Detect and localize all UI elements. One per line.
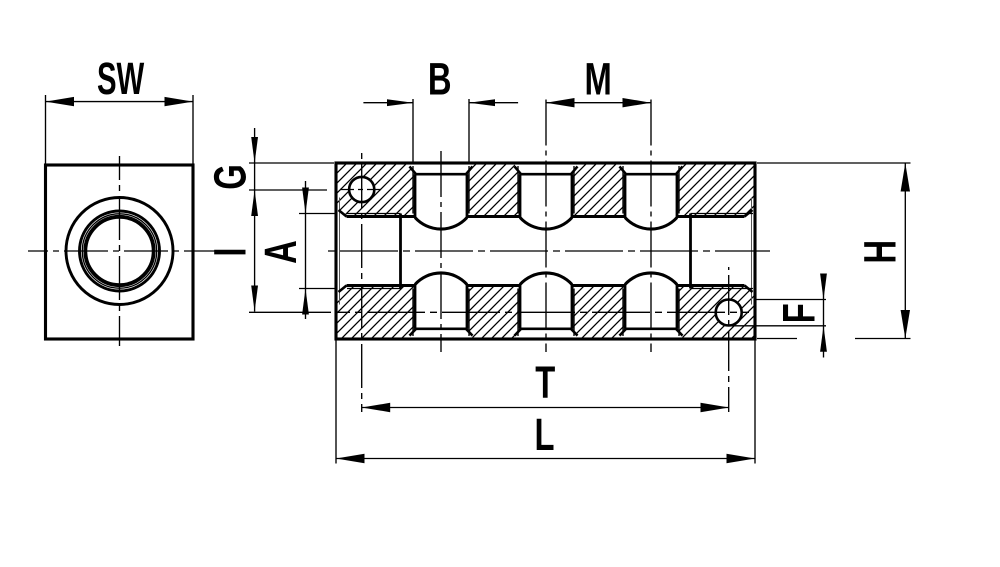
svg-text:SW: SW — [97, 53, 145, 104]
end view chamfer circle — [80, 211, 160, 291]
end view horizontal centerline — [28, 250, 216, 252]
left bore thread major lines — [347, 214, 401, 289]
dimension B line with outside arrows — [363, 99, 518, 106]
bottom port 1 — [410, 273, 473, 336]
svg-text:T: T — [535, 358, 555, 408]
svg-text:M: M — [584, 54, 611, 104]
port 2 centerline — [545, 100, 547, 353]
channel bottom edge — [347, 284, 745, 287]
svg-text:L: L — [534, 410, 554, 460]
hatched area bottom-left island — [337, 287, 415, 338]
port 1 centerline — [440, 147, 442, 352]
svg-text:G: G — [205, 164, 255, 189]
top port 3 — [620, 166, 683, 229]
svg-text:H: H — [855, 240, 905, 264]
left bore thread end step — [399, 214, 402, 289]
dimension B extension lines — [413, 99, 469, 163]
hatched area bottom-right island — [677, 287, 754, 338]
svg-text:F: F — [774, 303, 824, 323]
main axis centerline — [326, 250, 770, 252]
dimension L line with arrows — [336, 454, 755, 463]
dimension T line with arrows — [362, 403, 729, 412]
right bore thread major lines — [691, 214, 754, 289]
top port 1 — [410, 166, 473, 229]
channel top edge — [347, 215, 745, 218]
dimension H line with arrows — [901, 163, 910, 339]
right bore thread end step — [689, 214, 692, 289]
right face recess line — [751, 198, 753, 305]
end view bore circle — [86, 217, 153, 284]
svg-text:I: I — [205, 248, 255, 257]
mounting hole bottom-right vertical centerline — [728, 267, 730, 412]
mounting hole top-left vertical centerline — [361, 152, 363, 412]
dimension A line with outside arrows — [302, 181, 309, 319]
dimension H extension lines — [757, 163, 911, 339]
bottom port 2 — [515, 273, 578, 336]
mounting hole bottom-right horizontal centerline — [337, 311, 749, 313]
hatched area bottom island between ports 2-3 — [572, 287, 626, 338]
dimension F extension lines — [729, 300, 826, 326]
hatched area top island between ports 1-2 — [467, 164, 521, 215]
dimension L extension lines — [336, 341, 755, 464]
right bore chamfer — [745, 210, 753, 292]
dimension G extension line top — [249, 162, 334, 164]
mounting hole top-left horizontal centerline — [340, 189, 384, 191]
block outline — [336, 163, 755, 339]
end view body outline — [46, 165, 194, 339]
end view recess circle — [66, 198, 173, 305]
port 3 centerline — [650, 100, 652, 353]
dimension M line with arrows — [546, 98, 651, 107]
dimension SW extension lines — [46, 95, 194, 165]
dimension F line with outside arrows — [820, 274, 827, 358]
top port 2 — [515, 166, 578, 229]
svg-text:A: A — [256, 240, 306, 264]
dimension A extension lines — [299, 214, 335, 289]
left face recess line — [339, 198, 341, 305]
hatched area bottom island between ports 1-2 — [467, 287, 521, 338]
hatched area top-right island — [677, 164, 754, 215]
end view thread major circle — [82, 214, 156, 288]
dimension G extension line at hole center — [249, 189, 327, 191]
end view thread transition circle — [84, 216, 155, 287]
hatched area top island between ports 2-3 — [572, 164, 626, 215]
mounting hole top-left — [349, 177, 374, 202]
end view vertical centerline — [119, 156, 121, 346]
dimension I extension line (solid part) — [249, 311, 331, 313]
mounting hole bottom-right — [716, 300, 742, 326]
left bore chamfer — [339, 210, 347, 292]
bottom port 3 — [620, 273, 683, 336]
dimension G/I chain line with arrows — [251, 128, 258, 312]
svg-text:B: B — [428, 54, 452, 104]
dimension SW line with arrows — [46, 97, 194, 106]
hatched area top-left island — [337, 164, 415, 215]
